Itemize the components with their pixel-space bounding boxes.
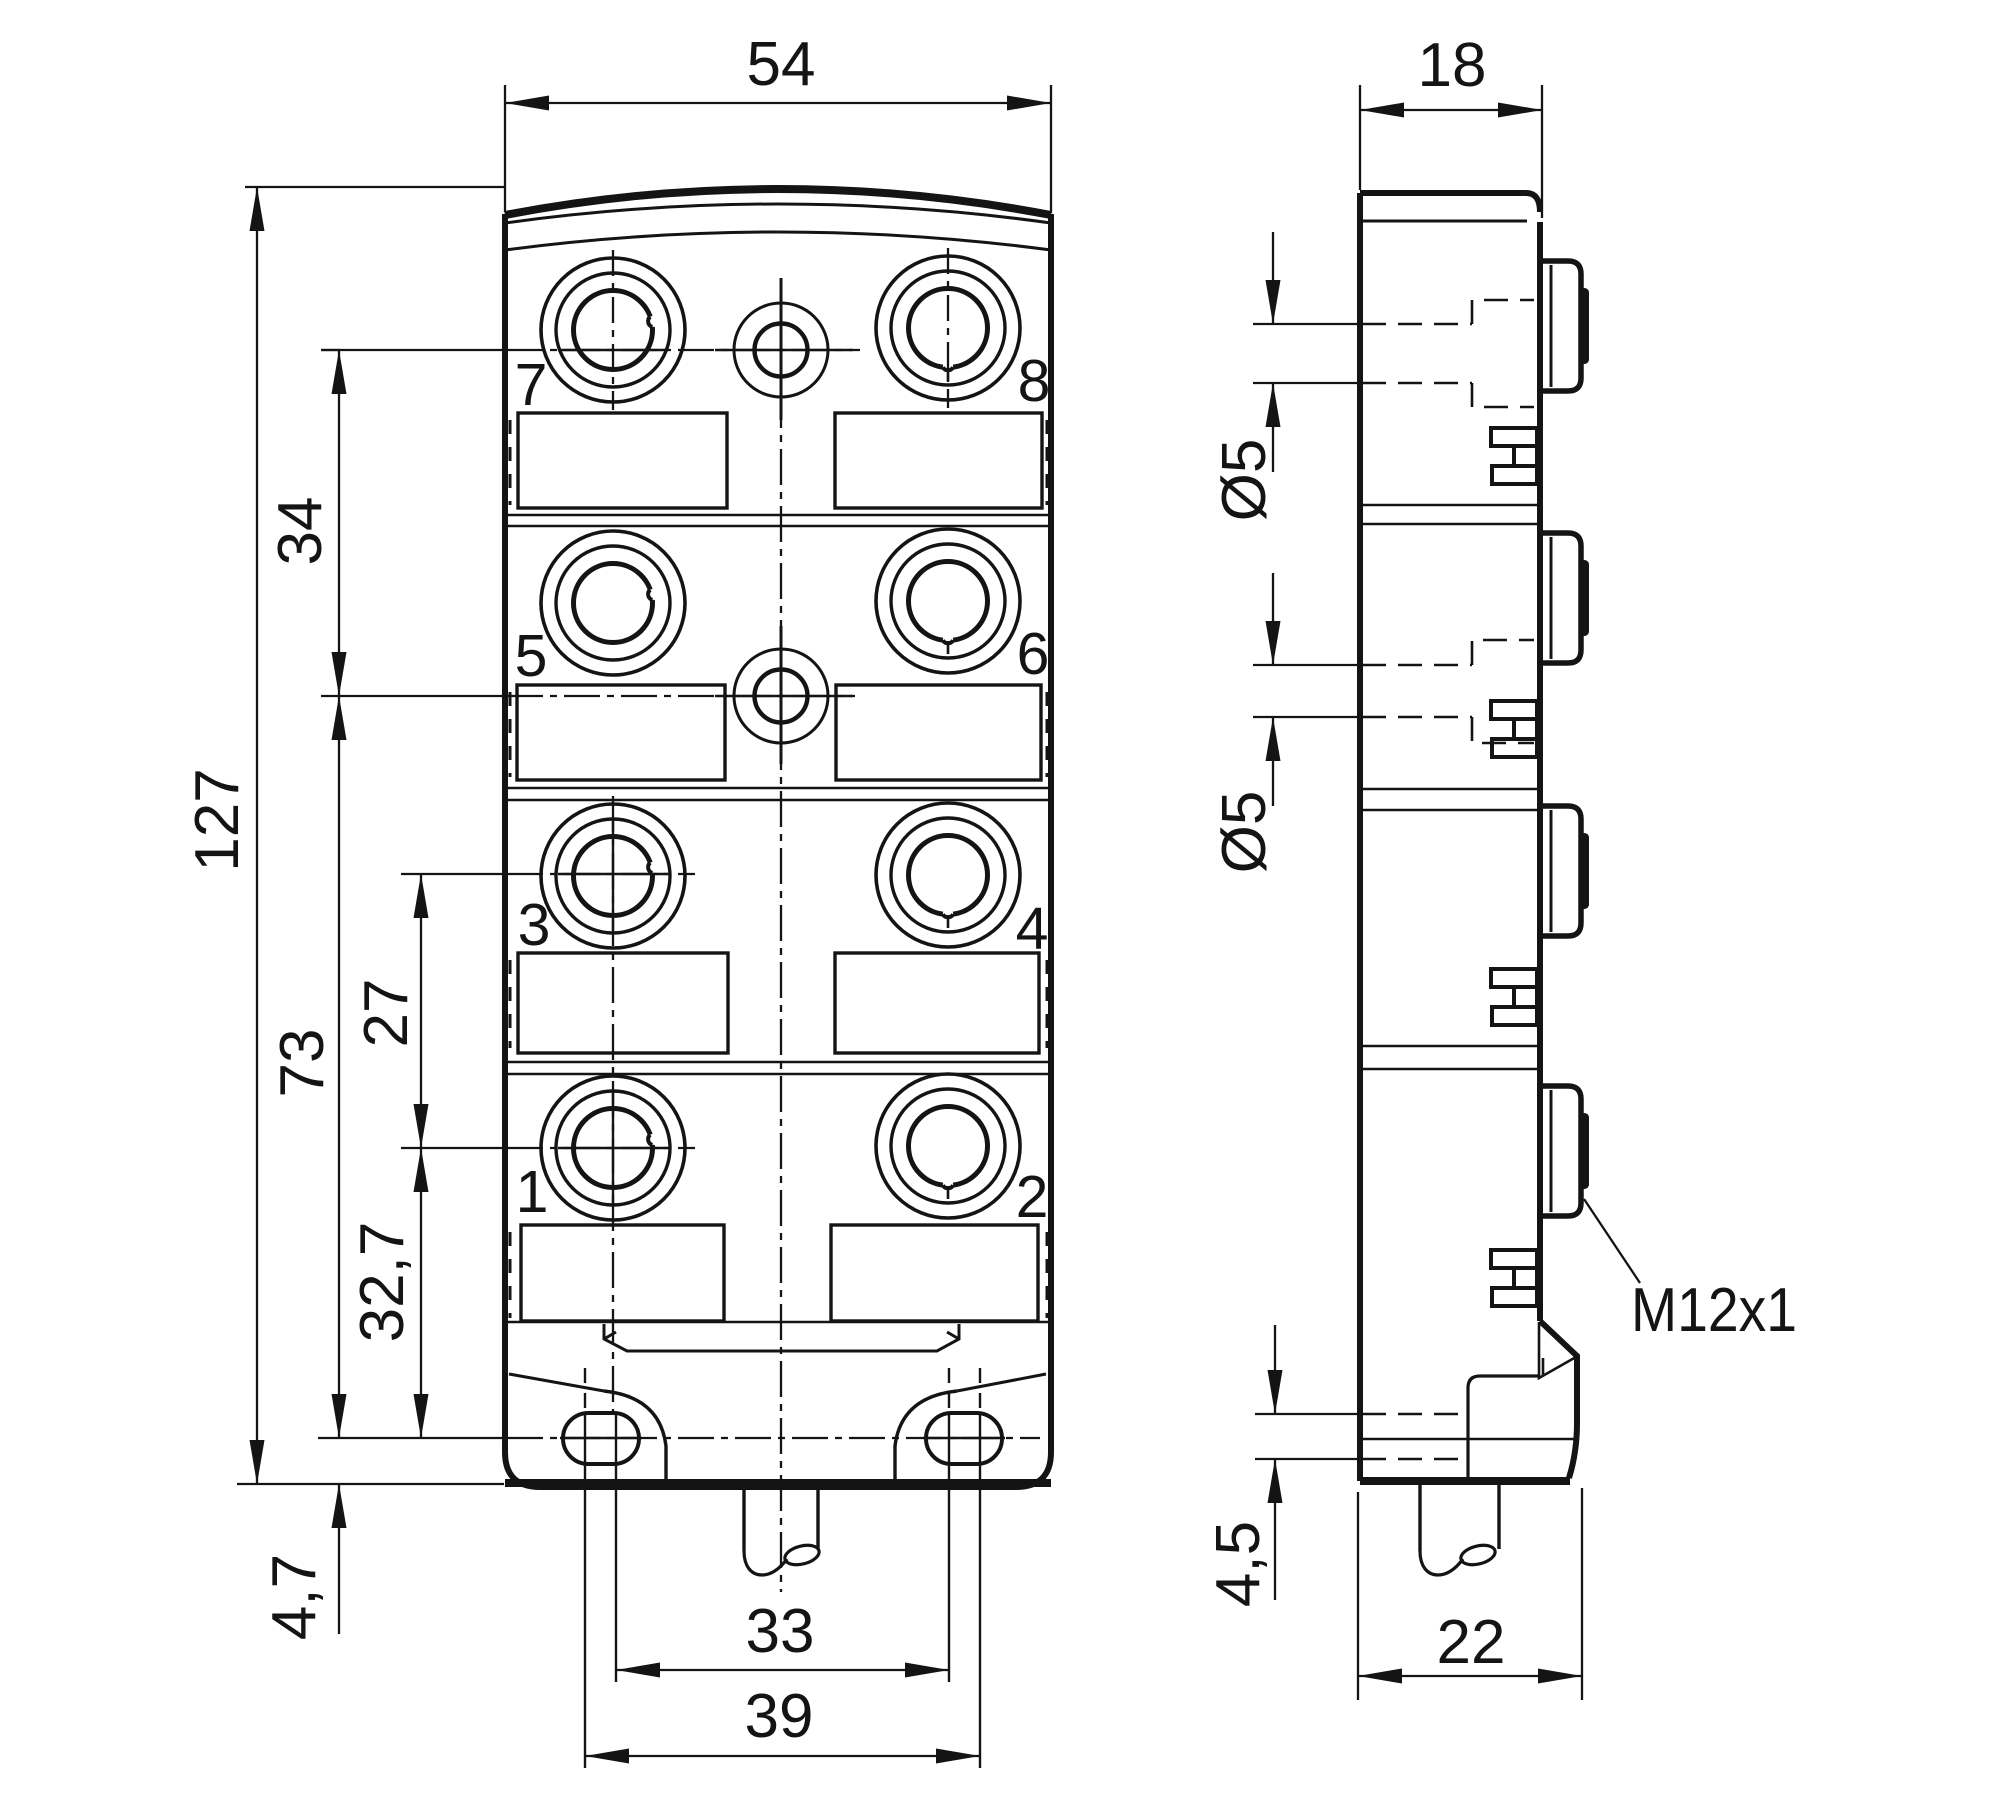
label rectangle port 5 [517, 685, 725, 780]
dimension 39 [585, 1755, 980, 1757]
label rectangle port 6 [836, 685, 1041, 780]
FRONT VIEW [505, 189, 1051, 1487]
dimension diam5 second [1253, 573, 1360, 806]
connector 8 [876, 256, 1020, 400]
svg-text:34: 34 [266, 497, 335, 566]
svg-text:33: 33 [746, 1597, 815, 1666]
bump port 1 [1540, 1086, 1588, 1216]
connector 5 [541, 531, 685, 675]
svg-text:4,7: 4,7 [260, 1554, 329, 1640]
dimension 4,7 tail [338, 1484, 340, 1634]
slot center verticals right [948, 1368, 950, 1413]
left wing line [509, 1374, 604, 1391]
svg-text:1: 1 [516, 1159, 549, 1225]
svg-text:7: 7 [515, 352, 548, 418]
screw hole middle [734, 649, 828, 743]
127 bottom extension line [237, 1483, 504, 1485]
svg-text:4,5: 4,5 [1204, 1521, 1273, 1607]
M12x1 leader line [1584, 1199, 1640, 1283]
bump port 7 [1540, 261, 1588, 391]
cable break loop [744, 1551, 787, 1575]
svg-text:5: 5 [515, 623, 548, 689]
top arc thick [505, 189, 1051, 215]
column line conn3-conn1-slot x613 [612, 796, 614, 1413]
svg-text:39: 39 [745, 1682, 814, 1751]
svg-text:73: 73 [268, 1029, 337, 1098]
screw2 datum line y696 [321, 695, 507, 697]
svg-text:54: 54 [747, 30, 816, 99]
side foot slot-plane line [1360, 1438, 1576, 1440]
dimension 4,5 [1255, 1325, 1360, 1600]
svg-text:18: 18 [1418, 31, 1487, 100]
separator lines between rows [506, 515, 1050, 1322]
connector 7 [541, 258, 685, 402]
cable lines [742, 1487, 745, 1551]
top arc thin 2 [505, 204, 1051, 223]
connector 4 [876, 803, 1020, 947]
side view top edge [1360, 193, 1540, 212]
label rectangle port 1 [521, 1225, 724, 1321]
side view back face [1357, 193, 1363, 1481]
dimension 34 extension y350 [321, 349, 340, 351]
arrowheads left dims [250, 187, 265, 231]
vertical line conn8 [947, 248, 949, 408]
dimension 54 [505, 85, 1051, 213]
left mounting slot [563, 1413, 639, 1464]
127 top extension line [245, 186, 504, 188]
right wing line [957, 1374, 1046, 1391]
vertical line conn7 [612, 250, 614, 410]
svg-text:Ø5: Ø5 [1210, 791, 1279, 874]
row A datum line y350 [321, 349, 507, 351]
side foot inner block [1468, 1376, 1540, 1478]
side clip 4 [1491, 1250, 1537, 1306]
right mounting slot [926, 1413, 1002, 1464]
side separator lines [1360, 505, 1540, 1069]
screw2 vertical cross [780, 626, 783, 764]
bump port 5 [1540, 533, 1588, 663]
side cable lines [1420, 1485, 1499, 1575]
dimension 22 [1358, 1488, 1582, 1700]
svg-text:22: 22 [1437, 1608, 1506, 1677]
side wall slot dashes beside label rects [510, 420, 1047, 1318]
slot center verticals left [585, 1368, 980, 1768]
connector 3 [541, 804, 685, 948]
hidden hole 1 dashed [1362, 300, 1534, 1459]
svg-text:2: 2 [1016, 1164, 1049, 1230]
right foot outline [895, 1391, 957, 1482]
dimension diam5 first [1253, 232, 1360, 472]
dimension 32,7 line [420, 1148, 422, 1438]
side view right face [1537, 222, 1543, 1321]
svg-text:32,7: 32,7 [348, 1222, 417, 1343]
screw hole top [734, 303, 828, 397]
SIDE VIEW [1360, 193, 1577, 1481]
svg-text:127: 127 [183, 768, 252, 871]
side view inner top line [1360, 220, 1527, 223]
bottom bracket plate [604, 1324, 959, 1351]
side view bottom edge [1360, 1477, 1570, 1485]
svg-text:27: 27 [352, 979, 421, 1048]
label rectangle port 7 [518, 413, 727, 508]
bump port 3 [1540, 806, 1588, 936]
side foot step [1542, 1358, 1545, 1376]
row D datum line y1148 [401, 1147, 507, 1149]
side foot dog-ear [1539, 1322, 1576, 1378]
screw1 vertical cross [780, 278, 783, 420]
svg-text:M12x1: M12x1 [1631, 1276, 1797, 1345]
svg-text:Ø5: Ø5 [1210, 439, 1279, 522]
vertical center line x781 [780, 278, 782, 1592]
hidden cable channel dashed [1362, 1413, 1466, 1416]
connector 6 [876, 529, 1020, 673]
svg-text:8: 8 [1018, 348, 1051, 414]
left foot outline [604, 1391, 666, 1482]
connector 1 [541, 1076, 685, 1220]
body outline front view [505, 189, 1051, 1487]
dimension 18 [1360, 85, 1542, 218]
label rectangle port 2 [831, 1225, 1038, 1321]
top arc thin 3 [505, 232, 1051, 250]
side clip 1 [1491, 428, 1537, 484]
dimension 33 [616, 1669, 949, 1671]
slot datum line y1438 [318, 1437, 507, 1439]
solid cross segments over dash-dot [715, 349, 853, 351]
hidden hole 2 dashed [1362, 664, 1472, 667]
dimension 127 line [256, 187, 258, 1484]
connector 2 [876, 1074, 1020, 1218]
svg-text:3: 3 [518, 892, 551, 958]
label rectangle port 8 [835, 413, 1042, 508]
side clip 2 [1491, 701, 1537, 757]
4,7 up arrow [332, 1484, 347, 1528]
label rectangle port 4 [835, 953, 1039, 1053]
svg-text:6: 6 [1017, 621, 1050, 687]
side clip 3 [1491, 969, 1537, 1025]
label rectangle port 3 [518, 953, 728, 1053]
row C datum line y874 [401, 873, 507, 875]
side foot right profile [1540, 1321, 1577, 1478]
dimension 73 line [338, 696, 340, 1438]
dimension 34 line [338, 350, 340, 696]
dimension 27 line [420, 874, 422, 1148]
